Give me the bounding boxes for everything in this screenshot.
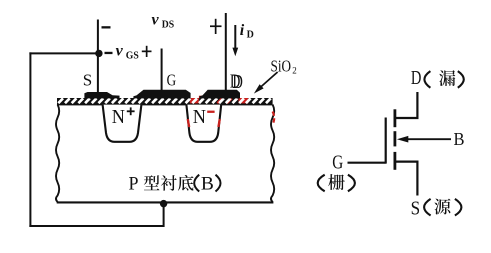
oxide hatch white slashes xyxy=(58,98,270,103)
oxide red section right of D electrode xyxy=(239,98,249,103)
substrate right wavy edge xyxy=(271,105,274,203)
wire: gate lead xyxy=(348,162,386,164)
channel segment drain side xyxy=(394,109,397,127)
svg-text:D: D xyxy=(230,71,241,93)
N- well red highlight marks xyxy=(188,119,190,127)
channel segment body xyxy=(394,131,397,146)
wire: source connection xyxy=(396,162,417,196)
svg-text:G: G xyxy=(167,70,177,89)
MOSFET symbol: gate bar xyxy=(385,118,387,164)
wire: gate lead vertical xyxy=(161,49,163,94)
svg-text:P: P xyxy=(129,173,139,194)
substrate bottom edge xyxy=(57,201,274,203)
svg-text:B: B xyxy=(454,129,465,149)
svg-text:2: 2 xyxy=(292,66,297,76)
N+ diffusion well xyxy=(103,105,142,142)
oxide layer SiO2 hatched band xyxy=(57,98,273,105)
electrode G metal xyxy=(133,90,190,99)
wire: substrate contact vertical xyxy=(163,204,165,228)
wire: drain lead vertical xyxy=(225,13,227,92)
svg-text:N: N xyxy=(112,106,125,128)
svg-text:B: B xyxy=(201,173,214,194)
svg-text:SiO: SiO xyxy=(271,56,292,75)
arrow: drain current iD xyxy=(234,25,236,49)
svg-text:S: S xyxy=(411,197,421,219)
label: plus sign of vGS xyxy=(142,51,152,53)
label gate chinese xyxy=(318,175,325,192)
substrate left wavy edge xyxy=(56,105,59,203)
svg-text:D: D xyxy=(411,67,422,89)
svg-text:G: G xyxy=(332,152,343,173)
svg-text:DS: DS xyxy=(162,20,175,31)
svg-text:v: v xyxy=(152,12,160,29)
node: junction dot at substrate bottom contact xyxy=(160,200,167,207)
channel segment source side xyxy=(394,152,397,170)
wire: left vertical of substrate loop xyxy=(29,52,31,227)
label: minus sign at source side of vDS xyxy=(102,26,111,28)
wire: drain connection xyxy=(396,92,417,118)
node: junction dot on source wire xyxy=(95,50,102,57)
oxide red section between G and D electrodes xyxy=(190,98,199,103)
svg-text:i: i xyxy=(240,22,245,39)
svg-text:N: N xyxy=(193,106,206,128)
wire: top horizontal of substrate loop xyxy=(29,52,98,54)
N- induced well xyxy=(186,105,221,142)
svg-text:GS: GS xyxy=(126,51,139,62)
substrate right edge red highlight xyxy=(273,112,275,125)
wire: bottom horizontal of substrate loop xyxy=(29,225,163,227)
label: minus sign of vGS xyxy=(105,52,113,54)
svg-text:S: S xyxy=(83,70,92,89)
svg-text:D: D xyxy=(247,30,254,41)
oxide red slashes under D electrode xyxy=(217,98,231,103)
arrow: body terminal B xyxy=(405,138,451,140)
electrode S metal xyxy=(84,92,119,98)
label: plus sign at drain side of vDS xyxy=(210,25,222,27)
arrow: SiO2 pointer xyxy=(259,72,278,89)
electrode D metal xyxy=(200,90,241,99)
wire: source lead vertical xyxy=(97,20,99,94)
svg-text:v: v xyxy=(116,42,124,59)
